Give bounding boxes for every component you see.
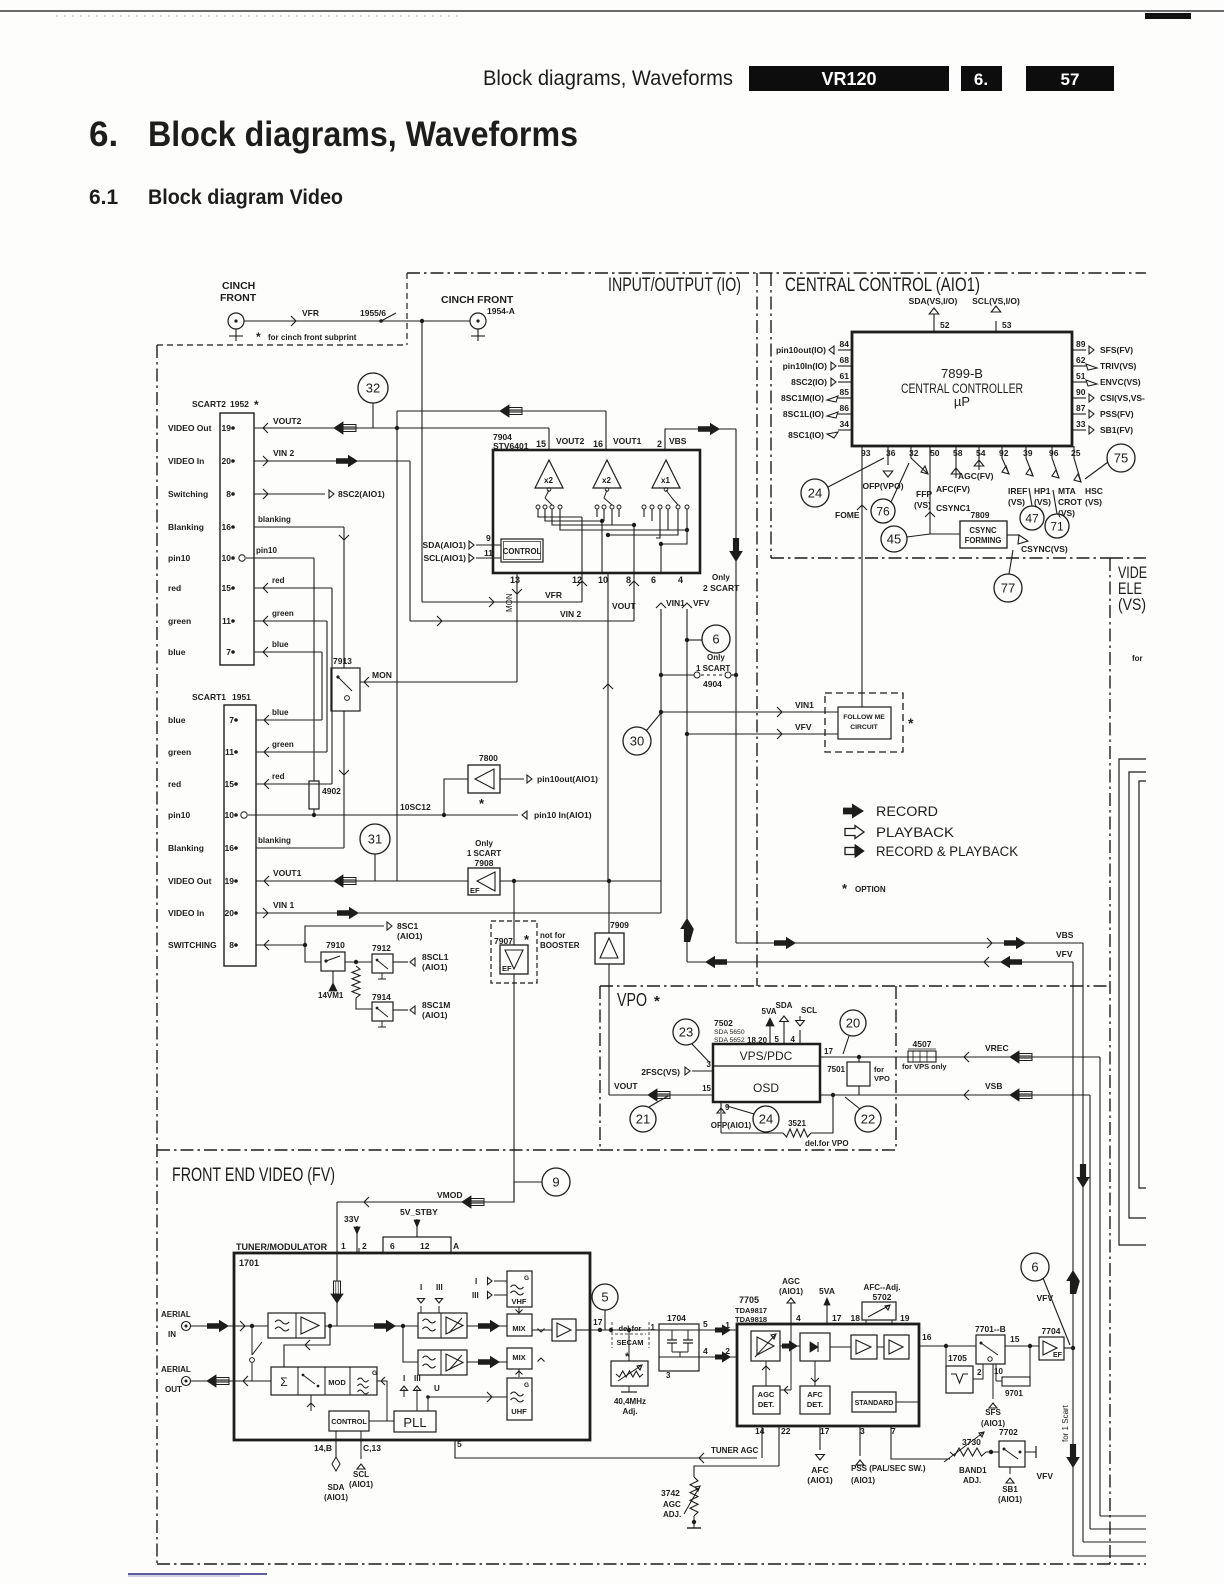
wire SWITCHING row xyxy=(256,944,305,946)
svg-text:VFV: VFV xyxy=(1056,949,1073,959)
svg-text:CSYNC: CSYNC xyxy=(969,526,997,535)
wire AGC input vertical xyxy=(790,1324,792,1390)
node 77 circle xyxy=(994,574,1022,602)
svg-text:C,13: C,13 xyxy=(363,1443,381,1453)
svg-text:Only: Only xyxy=(712,573,730,582)
svg-text:34: 34 xyxy=(840,419,850,429)
wire 8SC2 row xyxy=(254,493,325,495)
wire VIN2 into pin8 xyxy=(410,620,634,622)
pin 32 FFP xyxy=(911,446,928,474)
svg-text:(AIO1): (AIO1) xyxy=(349,1480,373,1489)
svg-text:(VS): (VS) xyxy=(1058,508,1075,518)
wire FOME vertical xyxy=(861,446,863,707)
svg-text:not for: not for xyxy=(540,931,565,940)
svg-text:UHF: UHF xyxy=(511,1407,527,1416)
svg-text:21: 21 xyxy=(636,1112,650,1127)
node 32 circle xyxy=(358,373,388,403)
svg-text:red: red xyxy=(168,583,181,593)
svg-text:16: 16 xyxy=(922,1332,932,1342)
svg-text:SB1: SB1 xyxy=(1002,1485,1018,1494)
header page box 57 xyxy=(1026,66,1114,91)
wire blanking to 7913 xyxy=(343,527,345,668)
svg-text:90: 90 xyxy=(1076,387,1086,397)
arrow VHF to MIX xyxy=(518,1307,520,1313)
resistor to 7914 xyxy=(352,966,360,998)
svg-text:7912: 7912 xyxy=(372,943,391,953)
svg-text:(AIO1): (AIO1) xyxy=(422,962,448,972)
svg-text:4507: 4507 xyxy=(913,1039,932,1049)
VS nested box 1 xyxy=(1119,759,1146,1245)
svg-text:FRONT END VIDEO (FV): FRONT END VIDEO (FV) xyxy=(172,1165,335,1186)
svg-text:7702: 7702 xyxy=(999,1427,1018,1437)
box AFC DET xyxy=(800,1386,830,1414)
svg-text:8SC1: 8SC1 xyxy=(397,921,419,931)
svg-text:76: 76 xyxy=(876,504,890,518)
svg-text:AERIAL: AERIAL xyxy=(161,1310,191,1319)
svg-text:VIDEO In: VIDEO In xyxy=(168,456,204,466)
wire mix2 chevron up xyxy=(537,1361,545,1363)
wire VIN 1 row xyxy=(256,912,661,914)
svg-text:VOUT1: VOUT1 xyxy=(273,868,302,878)
svg-text:7704: 7704 xyxy=(1042,1326,1061,1336)
wire VREC bus xyxy=(820,1056,1100,1058)
svg-text:5702: 5702 xyxy=(873,1292,892,1302)
svg-text:pin10 In(AIO1): pin10 In(AIO1) xyxy=(534,810,592,820)
node 76 circle xyxy=(871,499,895,523)
svg-text:OPTION: OPTION xyxy=(855,885,886,894)
svg-text:16: 16 xyxy=(225,843,235,853)
box CONTROL tuner xyxy=(329,1411,369,1431)
pin 54 AGC(FV) xyxy=(978,446,980,470)
wire VFV vertical xyxy=(686,609,688,962)
svg-text:1951: 1951 xyxy=(232,692,251,702)
svg-text:8SC2(AIO1): 8SC2(AIO1) xyxy=(338,489,385,499)
VS nested box 2 xyxy=(1129,772,1146,1218)
wire amp to demod xyxy=(782,1340,798,1351)
svg-text:VFV: VFV xyxy=(795,722,812,732)
svg-text:AGC: AGC xyxy=(663,1500,681,1509)
wire pin10 row SCART1 10SC12 xyxy=(241,812,247,818)
svg-text:TDA9817: TDA9817 xyxy=(735,1306,767,1315)
svg-text:EF: EF xyxy=(1053,1352,1063,1359)
svg-text:U: U xyxy=(434,1384,440,1393)
svg-text:VIDEO Out: VIDEO Out xyxy=(168,423,212,433)
legend playback arrow xyxy=(845,826,864,839)
svg-text:VFR: VFR xyxy=(545,590,562,600)
svg-text:84: 84 xyxy=(840,339,850,349)
svg-text:50: 50 xyxy=(930,448,940,458)
svg-text:Switching: Switching xyxy=(168,489,208,499)
switch blades under amps xyxy=(545,490,549,498)
svg-text:2: 2 xyxy=(362,1241,367,1251)
svg-text:HP1: HP1 xyxy=(1034,486,1051,496)
svg-text:16: 16 xyxy=(222,522,232,532)
svg-text:Block diagrams, Waveforms: Block diagrams, Waveforms xyxy=(483,67,733,90)
svg-text:9: 9 xyxy=(486,533,491,543)
svg-text:III: III xyxy=(436,1283,443,1292)
outer diagram border left xyxy=(156,345,158,1564)
wire green row SCART1 xyxy=(256,751,327,753)
svg-text:7908: 7908 xyxy=(475,858,494,868)
svg-text:7: 7 xyxy=(226,647,231,657)
svg-text:5: 5 xyxy=(601,1290,608,1305)
svg-text:12: 12 xyxy=(420,1241,430,1251)
svg-text:*: * xyxy=(908,715,914,731)
svg-text:11: 11 xyxy=(225,747,234,757)
svg-text:8SC1L(IO): 8SC1L(IO) xyxy=(783,409,824,419)
svg-text:VBS: VBS xyxy=(669,436,687,446)
mixer filter box UHF xyxy=(418,1350,467,1375)
svg-text:45: 45 xyxy=(887,532,901,547)
wire pin10 row SCART2 xyxy=(239,555,245,561)
wire VOUT1 upper line xyxy=(397,410,606,412)
svg-text:IREF: IREF xyxy=(1008,486,1027,496)
svg-text:G: G xyxy=(524,1382,529,1389)
wire VFR cinch xyxy=(244,320,470,322)
svg-text:VOUT2: VOUT2 xyxy=(273,416,302,426)
svg-text:AGC: AGC xyxy=(782,1277,800,1286)
svg-text:*: * xyxy=(256,330,261,344)
svg-text:SDA 5650: SDA 5650 xyxy=(714,1029,745,1036)
wire VMOD xyxy=(337,1182,514,1202)
svg-text:MOD: MOD xyxy=(328,1378,346,1387)
svg-text:STANDARD: STANDARD xyxy=(855,1400,894,1407)
pin 5VA VPS xyxy=(769,1026,771,1044)
svg-text:1705: 1705 xyxy=(948,1353,967,1363)
svg-text:17: 17 xyxy=(593,1317,603,1327)
svg-text:(AIO1): (AIO1) xyxy=(324,1493,348,1502)
svg-text:DET.: DET. xyxy=(758,1400,774,1409)
svg-text:5: 5 xyxy=(775,1035,780,1044)
wire VIN2 vertical xyxy=(409,461,411,621)
svg-text:33V: 33V xyxy=(344,1214,359,1224)
svg-text:32: 32 xyxy=(366,381,380,396)
svg-text:6: 6 xyxy=(712,632,719,647)
svg-text:7913: 7913 xyxy=(333,656,352,666)
svg-text:AGC: AGC xyxy=(758,1390,775,1399)
svg-text:6.: 6. xyxy=(89,115,118,154)
svg-text:for: for xyxy=(874,1065,884,1074)
wire G-cell to PLL xyxy=(377,1381,387,1421)
svg-text:VIN1: VIN1 xyxy=(795,700,814,710)
cinch front connector 1954-A xyxy=(470,313,486,329)
block FOLLOW ME CIRCUIT xyxy=(825,693,903,752)
block MIX1 xyxy=(507,1314,532,1336)
svg-text:5: 5 xyxy=(703,1319,708,1329)
selector contacts row xyxy=(536,505,540,509)
wire VFR down from cinch xyxy=(421,321,423,602)
pin 16 out xyxy=(919,1345,976,1347)
wire VBS bus xyxy=(736,942,1083,944)
svg-text:10: 10 xyxy=(225,810,235,820)
pin 5 SDA VPS xyxy=(783,1030,785,1044)
svg-text:3730: 3730 xyxy=(962,1437,981,1447)
svg-text:CONTROL: CONTROL xyxy=(503,547,542,556)
header chapter box 6. xyxy=(961,66,1002,91)
svg-text:VOUT: VOUT xyxy=(614,1081,638,1091)
pot 3742 AGC ADJ xyxy=(690,1477,698,1516)
svg-text:DET.: DET. xyxy=(807,1400,823,1409)
pin 4 SCL VPS xyxy=(799,1030,801,1044)
svg-text:14,B: 14,B xyxy=(314,1443,332,1453)
svg-text:for: for xyxy=(1132,654,1143,663)
svg-text:pin10: pin10 xyxy=(168,810,190,820)
VS nested box 3 xyxy=(1139,781,1146,1188)
svg-text:VIN 2: VIN 2 xyxy=(273,448,295,458)
node 47 circle xyxy=(1020,506,1044,530)
svg-text:8: 8 xyxy=(229,940,234,950)
svg-text:VIDEO In: VIDEO In xyxy=(168,908,204,918)
svg-text:51: 51 xyxy=(1076,371,1086,381)
wire red SCART2-SCART1 xyxy=(254,587,332,589)
svg-text:for VPS only: for VPS only xyxy=(902,1062,947,1071)
svg-text:*: * xyxy=(654,993,660,1010)
svg-text:G: G xyxy=(524,1275,529,1282)
svg-text:*: * xyxy=(842,881,848,896)
svg-text:22: 22 xyxy=(781,1426,791,1436)
svg-text:for 1 Scart: for 1 Scart xyxy=(1061,1404,1070,1442)
svg-text:17: 17 xyxy=(832,1313,842,1323)
wire 8SC1 out xyxy=(305,926,384,945)
svg-text:RECORD: RECORD xyxy=(876,804,938,819)
svg-text:del.for VPO: del.for VPO xyxy=(805,1139,849,1148)
svg-text:for cinch front subprint: for cinch front subprint xyxy=(268,333,357,342)
svg-text:ADJ.: ADJ. xyxy=(663,1510,681,1519)
svg-text:3742: 3742 xyxy=(661,1488,680,1498)
svg-text:68: 68 xyxy=(840,355,850,365)
wire switching to 7910 xyxy=(305,945,321,962)
svg-text:SFS: SFS xyxy=(985,1408,1001,1417)
node 45 circle xyxy=(881,526,907,552)
node 75 circle xyxy=(1107,444,1135,472)
svg-text:8SC1M: 8SC1M xyxy=(422,1000,450,1010)
wire blanking row SCART2 xyxy=(254,526,344,528)
pin SFS xyxy=(992,1364,994,1399)
svg-text:SCART2: SCART2 xyxy=(192,399,226,409)
VPO region right border xyxy=(895,986,897,1150)
svg-text:I: I xyxy=(403,1374,405,1383)
svg-text:5VA: 5VA xyxy=(819,1286,835,1296)
svg-text:(AIO1): (AIO1) xyxy=(807,1475,833,1485)
svg-text:PLAYBACK: PLAYBACK xyxy=(876,825,954,840)
svg-text:33: 33 xyxy=(1076,419,1086,429)
svg-text:x1: x1 xyxy=(661,476,670,485)
wire VIN 2 row xyxy=(254,460,410,462)
feedback to sigma xyxy=(284,1326,330,1367)
pin 58 AFC(FV) xyxy=(955,446,957,478)
svg-text:4902: 4902 xyxy=(322,786,341,796)
svg-text:1: 1 xyxy=(341,1241,346,1251)
svg-text:MIX: MIX xyxy=(512,1324,525,1333)
svg-text:CSYNC(VS): CSYNC(VS) xyxy=(1021,544,1068,554)
filter+amp input xyxy=(268,1313,325,1338)
svg-text:6: 6 xyxy=(1031,1260,1038,1275)
svg-text:VOUT2: VOUT2 xyxy=(556,436,585,446)
svg-text:2FSC(VS): 2FSC(VS) xyxy=(641,1067,680,1077)
svg-text:15: 15 xyxy=(222,583,232,593)
svg-text:1704: 1704 xyxy=(667,1313,686,1323)
svg-text:5VA: 5VA xyxy=(762,1007,777,1016)
svg-text:III: III xyxy=(472,1291,479,1300)
svg-text:VPO: VPO xyxy=(617,990,647,1010)
legend record&playback arrow xyxy=(855,845,864,858)
wire mix to out amp xyxy=(532,1329,552,1331)
wire VFR into pin12 xyxy=(422,601,582,603)
svg-text:3: 3 xyxy=(666,1371,671,1380)
svg-text:(VS): (VS) xyxy=(1034,497,1051,507)
amp 2 out xyxy=(884,1335,909,1359)
svg-text:6: 6 xyxy=(390,1241,395,1251)
svg-text:VFR: VFR xyxy=(302,308,319,318)
svg-text:71: 71 xyxy=(1050,519,1064,533)
wire demod to AFC det xyxy=(814,1361,816,1386)
svg-text:14: 14 xyxy=(755,1426,765,1436)
AIO1 region bottom border xyxy=(771,557,1110,559)
svg-text:Only: Only xyxy=(707,653,725,662)
node 6 circle IO xyxy=(702,625,730,653)
wire 7800 input xyxy=(444,779,468,815)
internal routing mesh xyxy=(538,509,582,517)
svg-text:75: 75 xyxy=(1114,451,1128,466)
svg-text:MIX: MIX xyxy=(512,1353,525,1362)
svg-text:AFC: AFC xyxy=(807,1390,823,1399)
IO bottom / VPO top border xyxy=(600,985,1110,987)
svg-text:ADJ.: ADJ. xyxy=(963,1476,981,1485)
component 4507 xyxy=(908,1051,936,1062)
block sigma-mod xyxy=(271,1367,377,1395)
block VHF G filter xyxy=(507,1271,532,1307)
svg-text:SDA(AIO1): SDA(AIO1) xyxy=(423,540,467,550)
wire VOUT2 row xyxy=(254,427,549,429)
wire 7909 connections xyxy=(608,881,610,933)
svg-text:92: 92 xyxy=(999,448,1009,458)
svg-text:4904: 4904 xyxy=(703,679,722,689)
svg-text:16: 16 xyxy=(593,439,603,449)
svg-text:OFP(AIO1): OFP(AIO1) xyxy=(711,1121,752,1130)
svg-text:19: 19 xyxy=(222,423,232,433)
wire blue row SCART1 xyxy=(256,719,322,721)
svg-text:17: 17 xyxy=(820,1426,830,1436)
block UHF G filter xyxy=(507,1378,532,1420)
svg-text:53: 53 xyxy=(1002,320,1012,330)
header model box VR120 xyxy=(749,66,949,91)
box AGC DET xyxy=(753,1386,780,1414)
amp 7907 EF xyxy=(491,921,537,983)
amp tuner out xyxy=(552,1319,576,1341)
wire mixer1 to VHF MIX xyxy=(467,1325,507,1327)
svg-text:1952: 1952 xyxy=(230,399,249,409)
wire 1705 to 7701 xyxy=(973,1364,983,1379)
svg-text:VIN1: VIN1 xyxy=(666,598,685,608)
svg-text:red: red xyxy=(168,779,181,789)
svg-text:1 SCART: 1 SCART xyxy=(467,849,501,858)
svg-text:7899-B: 7899-B xyxy=(941,366,983,381)
svg-text:85: 85 xyxy=(840,387,850,397)
svg-text:VPO: VPO xyxy=(874,1074,890,1083)
svg-text:SDA: SDA xyxy=(328,1483,345,1492)
svg-text:19: 19 xyxy=(225,876,235,886)
svg-text:7800: 7800 xyxy=(479,753,498,763)
wire AGC det to amp xyxy=(765,1361,767,1386)
svg-text:Blanking: Blanking xyxy=(168,843,204,853)
svg-text:9701: 9701 xyxy=(1005,1389,1023,1398)
svg-text:13: 13 xyxy=(510,575,520,585)
svg-text:89: 89 xyxy=(1076,339,1086,349)
svg-text:10SC12: 10SC12 xyxy=(400,802,431,812)
svg-text:VHF: VHF xyxy=(512,1297,527,1306)
arrow UHF to MIX2 xyxy=(518,1369,520,1377)
svg-text:Blanking: Blanking xyxy=(168,522,204,532)
node 22 circle xyxy=(855,1106,881,1132)
svg-text:3: 3 xyxy=(860,1426,865,1436)
svg-text:25: 25 xyxy=(1071,448,1081,458)
svg-text:green: green xyxy=(272,609,294,618)
svg-text:61: 61 xyxy=(840,371,850,381)
svg-text:2: 2 xyxy=(657,439,662,449)
svg-text:*: * xyxy=(479,796,485,811)
svg-text:39: 39 xyxy=(1023,448,1033,458)
tuner top pins xyxy=(383,1237,451,1253)
wire MON to 7913 xyxy=(360,681,517,683)
svg-text:7910: 7910 xyxy=(326,940,345,950)
node cinch junction xyxy=(420,319,424,323)
legend record arrow xyxy=(843,804,864,819)
svg-text:MON: MON xyxy=(505,593,514,612)
cinch subprint border xyxy=(157,344,407,346)
svg-text:TUNER AGC: TUNER AGC xyxy=(711,1446,758,1455)
switch 4904 only-1-scart xyxy=(661,674,694,676)
svg-text:FRONT: FRONT xyxy=(220,292,257,304)
svg-text:VFV: VFV xyxy=(1036,1471,1053,1481)
svg-text:10: 10 xyxy=(994,1367,1003,1376)
svg-text:(AIO1): (AIO1) xyxy=(998,1495,1022,1504)
wire split to second mixer xyxy=(403,1326,418,1362)
svg-text:IN: IN xyxy=(168,1330,176,1339)
svg-text:62: 62 xyxy=(1076,355,1086,365)
svg-text:8: 8 xyxy=(626,575,631,585)
svg-text:VSB: VSB xyxy=(985,1081,1002,1091)
svg-text:1 SCART: 1 SCART xyxy=(696,664,730,673)
svg-text:blanking: blanking xyxy=(258,515,291,524)
svg-text:(AIO1): (AIO1) xyxy=(779,1287,803,1296)
svg-text:23: 23 xyxy=(679,1025,693,1040)
svg-text:VIN 2: VIN 2 xyxy=(560,609,582,619)
svg-text:SCL: SCL xyxy=(801,1006,817,1015)
svg-text:Only: Only xyxy=(475,839,493,848)
svg-text:AERIAL: AERIAL xyxy=(161,1365,191,1374)
svg-text:I: I xyxy=(475,1277,477,1286)
cinch front connector 1955/6 xyxy=(228,313,244,329)
svg-text:3521: 3521 xyxy=(788,1119,806,1128)
svg-text:1954-A: 1954-A xyxy=(487,306,515,316)
svg-text:EF: EF xyxy=(470,886,480,895)
svg-text:18: 18 xyxy=(851,1313,861,1323)
node 30 circle xyxy=(623,727,651,755)
svg-text:BAND1: BAND1 xyxy=(959,1466,987,1475)
svg-text:blue: blue xyxy=(272,708,289,717)
svg-text:MTA: MTA xyxy=(1058,486,1076,496)
svg-text:15: 15 xyxy=(702,1084,711,1093)
svg-text:77: 77 xyxy=(1001,581,1015,596)
svg-text:52: 52 xyxy=(940,320,950,330)
wire VOUT2 to pin15 xyxy=(548,428,550,450)
svg-text:Adj.: Adj. xyxy=(622,1407,637,1416)
svg-text:9: 9 xyxy=(725,1103,730,1112)
svg-text:Block diagram Video: Block diagram Video xyxy=(148,186,343,209)
svg-text:7: 7 xyxy=(891,1426,896,1436)
IC 7899-B central controller xyxy=(852,332,1072,446)
box PLL xyxy=(394,1411,436,1432)
